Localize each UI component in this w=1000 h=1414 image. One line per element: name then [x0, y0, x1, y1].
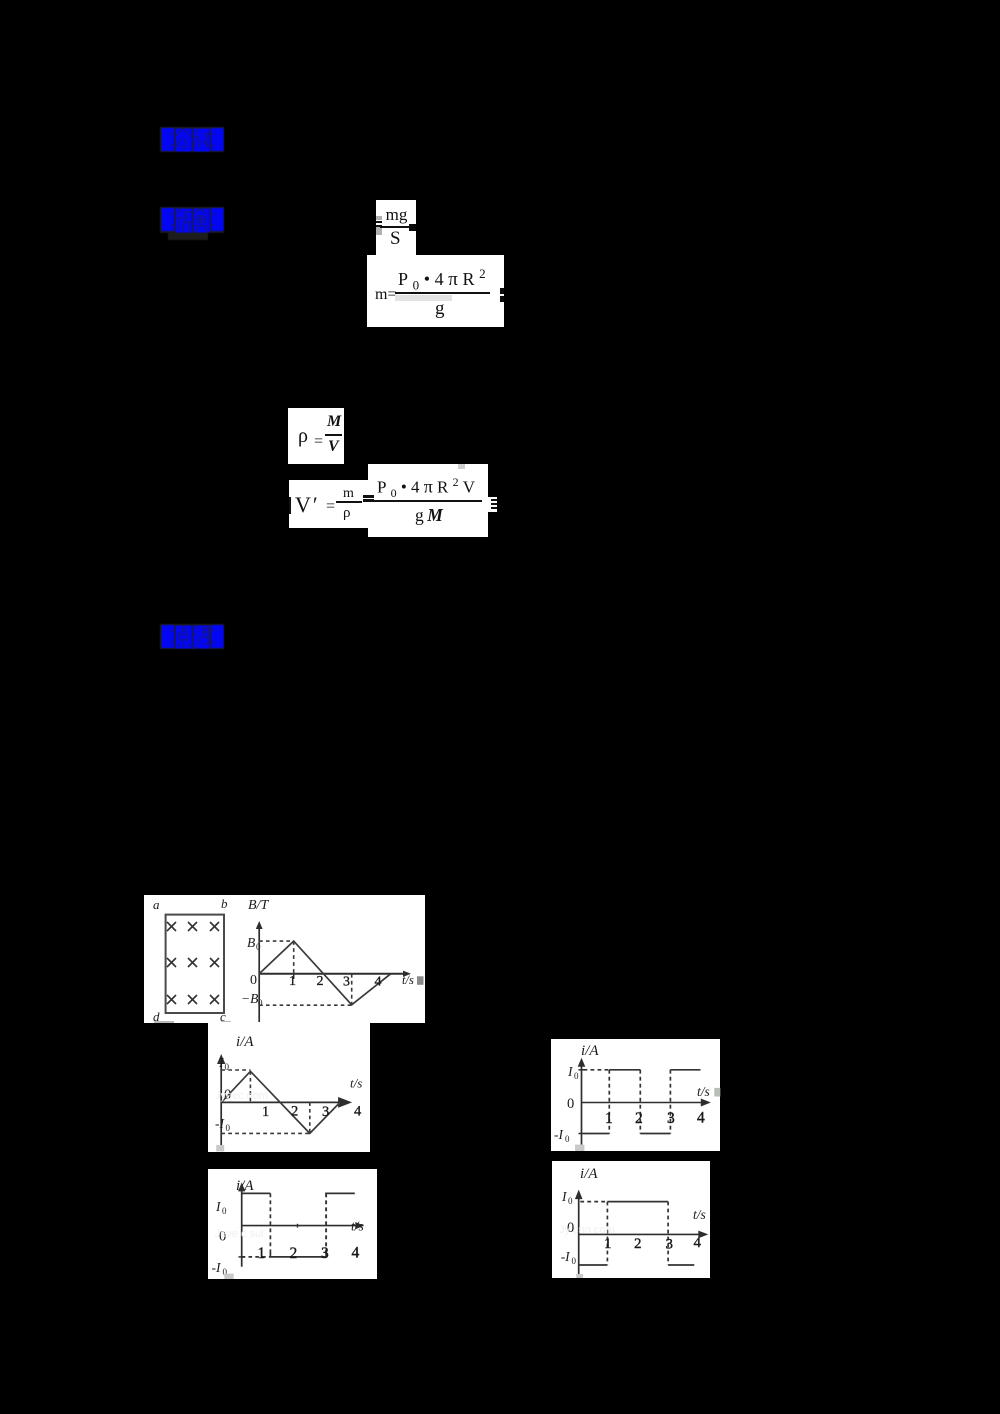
svg-text:I: I: [561, 1189, 568, 1204]
B axis vertical: [256, 921, 263, 1022]
rho small denominator: [343, 505, 351, 521]
gray smudge: [395, 295, 452, 301]
watermark: [215, 1228, 264, 1240]
watermark: [559, 1224, 615, 1236]
label -B0: [241, 991, 263, 1008]
-I0 label: [561, 1249, 577, 1266]
gray square bottom left: [575, 1145, 584, 1151]
tick labels 1 2 3 4: [604, 1235, 702, 1253]
i/A label: [236, 1178, 254, 1194]
I0 tick: [579, 1069, 585, 1071]
svg-text:0: 0: [574, 1071, 579, 1081]
gray square bottom left: [224, 1274, 233, 1279]
formula block V' = m/rho = P0·4πR²V/gM : left part: [289, 480, 368, 528]
dashed I0 reference: [580, 1201, 607, 1203]
formula block m = P0*4piR^2/g: [367, 255, 504, 327]
panel 2: i/A triangle wave graph: [208, 1022, 370, 1152]
square wave high 1-2: [609, 1069, 640, 1071]
i axis: [238, 1182, 245, 1266]
svg-text:B/T: B/T: [248, 898, 269, 913]
I0 label: [561, 1189, 573, 1206]
gray notch top: [458, 464, 465, 469]
tick labels 1 2 3 4: [262, 1104, 362, 1121]
-I0 label: [212, 1260, 228, 1277]
square wave high 3-4: [670, 1069, 700, 1071]
numerator mg: [384, 206, 409, 224]
dashed vertical t=1: [293, 941, 295, 974]
label d: [153, 1009, 160, 1024]
t axis: [582, 1099, 711, 1107]
cut glyph at left edge: [289, 497, 291, 514]
svg-text:-I: -I: [554, 1127, 564, 1142]
t axis: [242, 1222, 365, 1229]
t axis horizontal: [259, 971, 411, 977]
svg-text:3: 3: [321, 1245, 329, 1262]
fraction bar: [372, 500, 482, 502]
watermark: [215, 1090, 268, 1102]
svg-text:1: 1: [605, 1110, 613, 1127]
svg-text:t/s: t/s: [693, 1207, 706, 1222]
gray marks under d and c: [154, 1021, 231, 1023]
tick labels 1 2 3 4: [258, 1245, 360, 1263]
label B0: [247, 935, 261, 952]
svg-text:0: 0: [226, 1123, 231, 1133]
svg-text:0: 0: [567, 1096, 574, 1112]
svg-text:0: 0: [250, 973, 257, 988]
M numerator: [327, 414, 341, 430]
0 label: [567, 1220, 574, 1236]
fraction bar: [325, 434, 342, 436]
svg-text:1: 1: [289, 974, 296, 989]
svg-text:0: 0: [565, 1134, 570, 1144]
svg-text:i/A: i/A: [580, 1166, 598, 1182]
formula block = mg/S: [376, 200, 416, 255]
dashed vertical t=3: [351, 974, 353, 1005]
svg-text:2: 2: [634, 1236, 642, 1252]
dashed -B0 level: [259, 1004, 352, 1006]
dashed I0 reference: [584, 1069, 609, 1071]
svg-text:1: 1: [604, 1236, 612, 1252]
svg-text:Jy cnn com: Jy cnn com: [559, 1224, 615, 1236]
dashed I0 level: [221, 1069, 250, 1071]
t/s label: [697, 1084, 710, 1099]
low line 3-4: [668, 1264, 694, 1266]
svg-text:4: 4: [352, 1245, 360, 1262]
gray box after t/s: [417, 976, 424, 985]
m small numerator: [343, 487, 354, 501]
partial glyph at right edge: [500, 288, 504, 302]
i/A label: [236, 1034, 254, 1050]
square wave low 0-1: [584, 1133, 610, 1135]
gray square bottom: [576, 1274, 583, 1278]
rho: [298, 425, 308, 447]
I0 label at axis top: [218, 1055, 230, 1072]
low line 0-1: [579, 1264, 608, 1266]
numerator P0·4πR²V: [377, 473, 479, 503]
svg-text:0: 0: [222, 1206, 227, 1216]
header 【解答】: [159, 205, 225, 241]
svg-text:t/s: t/s: [351, 1219, 364, 1234]
t/s label over arrow: [351, 1219, 364, 1234]
fraction bar: [380, 226, 409, 228]
svg-text:3: 3: [322, 1104, 329, 1120]
0 label: [224, 1087, 231, 1103]
flux cross marks: [167, 922, 219, 1004]
i axis: [217, 1054, 225, 1146]
dashed vertical t=1: [606, 1202, 608, 1265]
svg-text:t/s: t/s: [697, 1084, 710, 1099]
denominator g: [435, 299, 445, 319]
t/s label: [693, 1207, 706, 1222]
small bar: [336, 501, 362, 503]
formula block V' right part: [368, 464, 488, 537]
high line 1-3: [607, 1201, 668, 1203]
i/A label: [581, 1043, 599, 1059]
svg-text:t/s: t/s: [402, 973, 414, 987]
dashed low reference 0-1: [242, 1256, 271, 1258]
square wave low 2-3: [640, 1133, 670, 1135]
svg-text:I: I: [567, 1064, 574, 1079]
equals: [314, 433, 323, 451]
svg-text:I: I: [215, 1199, 222, 1214]
equals: [326, 498, 335, 516]
svg-text:1: 1: [262, 1104, 269, 1120]
svg-text:Jeve c sul: Jeve c sul: [215, 1228, 264, 1240]
high line 0-1: [242, 1192, 271, 1194]
tick t=2: [297, 1224, 299, 1228]
svg-text:2: 2: [290, 1245, 298, 1262]
triangle wave B(t): [259, 941, 391, 1005]
i/A label: [580, 1166, 598, 1182]
i axis: [575, 1190, 583, 1276]
-I0 label: [215, 1116, 231, 1133]
-I0 tick: [579, 1133, 585, 1135]
label 0: [250, 973, 257, 988]
svg-text:-I: -I: [561, 1249, 571, 1264]
dashed B0 level: [259, 940, 294, 942]
svg-text:b: b: [221, 896, 228, 911]
svg-text:0: 0: [568, 1196, 573, 1206]
svg-text:i/A: i/A: [236, 1034, 254, 1050]
dashed -I0 level: [221, 1132, 310, 1134]
svg-text:a: a: [153, 897, 160, 912]
dashed vertical at peak: [249, 1071, 251, 1102]
tick labels 1 2 3 4: [605, 1110, 705, 1128]
0 label: [567, 1096, 574, 1112]
dashed vertical t=1: [608, 1070, 610, 1134]
panel 5: i/A square wave (low, high 1-3, low): [552, 1161, 710, 1278]
svg-text:2: 2: [635, 1110, 643, 1127]
dashed vertical t=3: [669, 1070, 671, 1134]
numerator P0·4πR²: [398, 264, 490, 296]
bold equals: [363, 495, 374, 498]
triangle wave i(t): [221, 1071, 340, 1133]
gray box right edge: [714, 1088, 720, 1097]
dashed vertical t=1: [269, 1193, 271, 1256]
m=: [375, 286, 396, 303]
tick labels 1 2 3 4: [289, 974, 382, 990]
-I0 label: [554, 1127, 570, 1144]
t axis: [221, 1097, 352, 1108]
loop rectangle abcd: [166, 915, 224, 1013]
V': [295, 493, 320, 516]
I0 label: [215, 1199, 227, 1216]
panel 3: i/A square wave (starts low): [551, 1039, 720, 1151]
t/s label: [402, 973, 414, 987]
dashed vertical t=3: [667, 1202, 669, 1265]
svg-text:0: 0: [572, 1256, 577, 1266]
denominator S: [390, 229, 401, 249]
tick t=1: [293, 974, 295, 979]
label b: [221, 896, 228, 911]
V denominator: [328, 439, 339, 455]
denominator gM: [415, 506, 446, 525]
label c: [220, 1009, 226, 1024]
svg-text:0: 0: [258, 998, 263, 1008]
svg-text:i/A: i/A: [581, 1043, 599, 1059]
svg-text:2: 2: [291, 1104, 298, 1120]
svg-text:Jyeec nom: Jyeec nom: [215, 1090, 268, 1102]
equals sign: [376, 216, 382, 220]
t/s label: [350, 1076, 362, 1091]
header 【分析】: [159, 126, 225, 153]
svg-text:3: 3: [667, 1110, 675, 1127]
svg-text:4: 4: [354, 1104, 362, 1120]
svg-text:−B: −B: [241, 991, 258, 1006]
panel 4: i/A square wave (starts high at top): [208, 1169, 377, 1279]
svg-text:3: 3: [343, 975, 350, 990]
svg-text:1: 1: [258, 1245, 266, 1262]
svg-text:B: B: [247, 935, 255, 950]
high line 3-4: [325, 1192, 355, 1194]
dashed vertical t=3: [325, 1193, 327, 1256]
0 label: [219, 1229, 226, 1245]
i axis: [578, 1058, 586, 1145]
low line 1-3: [270, 1253, 326, 1257]
svg-text:-I: -I: [212, 1260, 222, 1275]
svg-text:2: 2: [317, 974, 324, 989]
I0 label: [567, 1064, 579, 1081]
dashed vertical at valley: [309, 1102, 311, 1133]
bar end blob: [409, 224, 416, 231]
panel 1: field loop abcd + B/T graph: [144, 895, 425, 1023]
svg-text:0: 0: [256, 942, 261, 952]
svg-text:-I: -I: [215, 1116, 225, 1131]
fraction bar: [395, 292, 490, 294]
svg-text:4: 4: [375, 975, 382, 990]
-I0 tick: [239, 1256, 245, 1258]
t axis: [579, 1231, 709, 1239]
svg-text:4: 4: [694, 1235, 702, 1251]
svg-text:i/A: i/A: [236, 1178, 254, 1194]
label a: [153, 897, 160, 912]
svg-text:t/s: t/s: [350, 1076, 362, 1091]
dashed vertical t=2: [639, 1070, 641, 1134]
svg-text:3: 3: [666, 1237, 674, 1253]
B/T axis label: [248, 898, 269, 913]
header 【点评】: [159, 623, 225, 650]
formula block rho = M/V: [288, 408, 344, 464]
svg-text:4: 4: [697, 1110, 705, 1127]
right tab with triple bar: [488, 497, 497, 512]
gray square bottom left: [216, 1145, 224, 1151]
